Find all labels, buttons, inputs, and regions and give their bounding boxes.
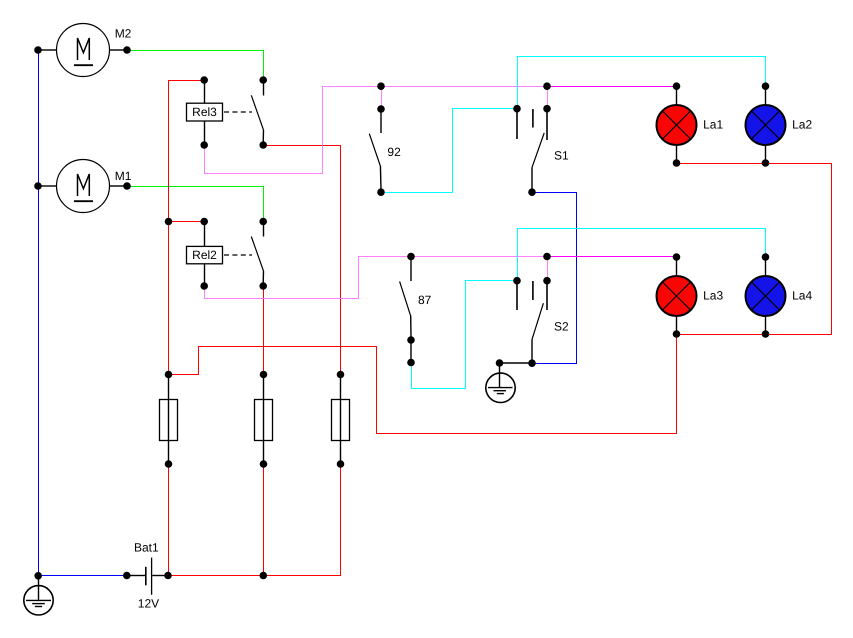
node ground left corner xyxy=(34,572,42,580)
node Rel3 coil bottom xyxy=(200,141,208,149)
wire cyan switch 87 bottom to S2 left contact xyxy=(412,281,518,389)
motor M1 xyxy=(41,160,125,213)
wire red Rel2 contact out to fuse F2 top xyxy=(263,286,265,375)
wire blue left rail M2/M1 to battery negative xyxy=(39,50,128,576)
wire cyan S1 left contact to La2 top xyxy=(518,57,766,109)
label La1 xyxy=(703,117,723,131)
node Rel2 contact top xyxy=(259,218,267,226)
relay coil Rel2 xyxy=(187,224,253,283)
svg-text:La2: La2 xyxy=(792,117,812,131)
fuse F2 xyxy=(255,377,273,461)
label Rel2 xyxy=(192,248,217,262)
fuse F3 xyxy=(332,377,350,461)
node La3 bottom xyxy=(673,330,681,338)
relay coil Rel3 xyxy=(187,83,253,142)
svg-text:M2: M2 xyxy=(115,26,132,40)
node fuse F1 bottom xyxy=(165,460,173,468)
label La2 xyxy=(792,117,812,131)
node La1 bottom xyxy=(673,159,681,167)
svg-text:Rel2: Rel2 xyxy=(192,248,217,262)
node red tee bottom rail xyxy=(260,572,268,580)
ground at S2 xyxy=(486,366,515,402)
node Rel3 contact bottom xyxy=(259,141,267,149)
lamp La2 xyxy=(746,89,786,160)
label Rel3 xyxy=(192,105,217,119)
svg-text:92: 92 xyxy=(387,145,401,159)
node fuse F1 top xyxy=(165,371,173,379)
wire green M2 to Rel3 contact top xyxy=(128,51,264,81)
relay contact Rel2 xyxy=(251,224,263,283)
node 92 pink tap xyxy=(377,82,385,90)
node battery negative xyxy=(123,572,131,580)
node 92 top xyxy=(377,105,385,113)
node ground tap at S2 xyxy=(496,359,504,367)
node La3 top xyxy=(673,253,681,261)
node Rel2 contact bottom xyxy=(259,282,267,290)
label La3 xyxy=(703,289,723,303)
label 92 xyxy=(387,145,401,159)
lamp La4 xyxy=(746,260,786,331)
battery Bat1 xyxy=(130,558,166,595)
node M2 right xyxy=(123,46,131,54)
node Rel2 coil top xyxy=(200,218,208,226)
label La4 xyxy=(792,289,812,303)
node fuse F3 top xyxy=(337,371,345,379)
node S2 common xyxy=(528,359,536,367)
node Rel3 coil top xyxy=(200,76,208,84)
wire red lamp return rail La1/La2/La3/La4 to fuse F1 top xyxy=(169,164,832,434)
label 87 xyxy=(418,293,432,307)
switch S2 xyxy=(517,281,547,360)
svg-text:87: 87 xyxy=(418,293,432,307)
node S1 right contact xyxy=(543,105,551,113)
node battery positive xyxy=(164,572,172,580)
label 12V xyxy=(138,597,159,611)
wire magenta node to La3 top xyxy=(548,256,677,258)
node pink-magenta junction top xyxy=(543,82,551,90)
node 87 cyan tap xyxy=(407,359,415,367)
node fuse F2 top xyxy=(260,371,268,379)
node M1 left xyxy=(34,182,42,190)
node 87 bottom xyxy=(407,336,415,344)
label Bat1 xyxy=(134,541,159,555)
node La1 top xyxy=(673,82,681,90)
wire pink node to S2 right contact xyxy=(547,257,549,281)
motor M2 xyxy=(41,24,125,77)
svg-text:La4: La4 xyxy=(792,289,812,303)
label M1 xyxy=(115,169,132,183)
wire red tee to Rel2 coil top xyxy=(169,221,205,223)
wire red fuse F2 bottom to rail xyxy=(263,464,265,576)
svg-text:La3: La3 xyxy=(703,289,723,303)
switch 92 xyxy=(369,112,381,189)
fuse F1 xyxy=(160,377,178,461)
label M2 xyxy=(115,26,132,40)
ground left xyxy=(24,579,53,616)
wire blue S1 common to S2 common xyxy=(532,193,577,364)
svg-text:Bat1: Bat1 xyxy=(134,541,159,555)
wire red fuse F1 bottom to battery positive xyxy=(168,464,170,576)
wire pink node to S1 right contact xyxy=(547,87,549,109)
svg-text:S2: S2 xyxy=(554,320,569,334)
svg-text:Rel3: Rel3 xyxy=(192,105,217,119)
svg-text:M1: M1 xyxy=(115,169,132,183)
node S2 left contact xyxy=(513,277,521,285)
node S2 right contact xyxy=(543,277,551,285)
node S1 common xyxy=(528,188,536,196)
wire red fuse F1 rail to Rel3 coil top xyxy=(169,81,205,375)
switch S1 xyxy=(517,109,547,189)
wire pink node to switch 92 top xyxy=(381,87,383,110)
node 92 bottom xyxy=(377,188,385,196)
wire cyan S2 left contact to La4 top xyxy=(518,229,766,281)
node La2 top xyxy=(762,82,770,90)
node red tee at Rel2 xyxy=(165,218,173,226)
wire red battery positive rail to fuse F3 bottom xyxy=(168,464,341,576)
svg-text:12V: 12V xyxy=(138,597,159,611)
wire green M1 to Rel2 contact top xyxy=(128,187,264,222)
wire pink Rel3 coil bottom to node above S1 xyxy=(205,87,548,174)
wire black S2 common to ground tap xyxy=(500,362,533,364)
relay contact Rel3 xyxy=(251,83,263,142)
node 87 top xyxy=(407,253,415,261)
node La4 top xyxy=(762,253,770,261)
node fuse F2 bottom xyxy=(260,460,268,468)
wire cyan switch 92 bottom to S1 left contact xyxy=(381,109,517,193)
lamp La1 xyxy=(657,89,697,160)
node La2 bottom xyxy=(762,159,770,167)
wire magenta node to La1 top xyxy=(548,86,677,88)
node M1 right xyxy=(123,182,131,190)
svg-text:S1: S1 xyxy=(554,148,569,162)
node Rel3 contact top xyxy=(259,76,267,84)
label S1 xyxy=(554,148,569,162)
node pink-magenta junction bottom xyxy=(543,253,551,261)
node S1 left contact xyxy=(513,105,521,113)
node M2 left xyxy=(34,46,42,54)
lamp La3 xyxy=(657,260,697,331)
node La4 bottom xyxy=(762,330,770,338)
switch 87 xyxy=(400,260,411,360)
svg-text:La1: La1 xyxy=(703,117,723,131)
label S2 xyxy=(554,320,569,334)
node fuse F3 bottom xyxy=(337,460,345,468)
wire pink Rel2 coil bottom to node above S2 xyxy=(205,257,548,299)
node Rel2 coil bottom xyxy=(200,282,208,290)
wire red Rel3 contact out to fuse F3 top xyxy=(263,146,341,375)
